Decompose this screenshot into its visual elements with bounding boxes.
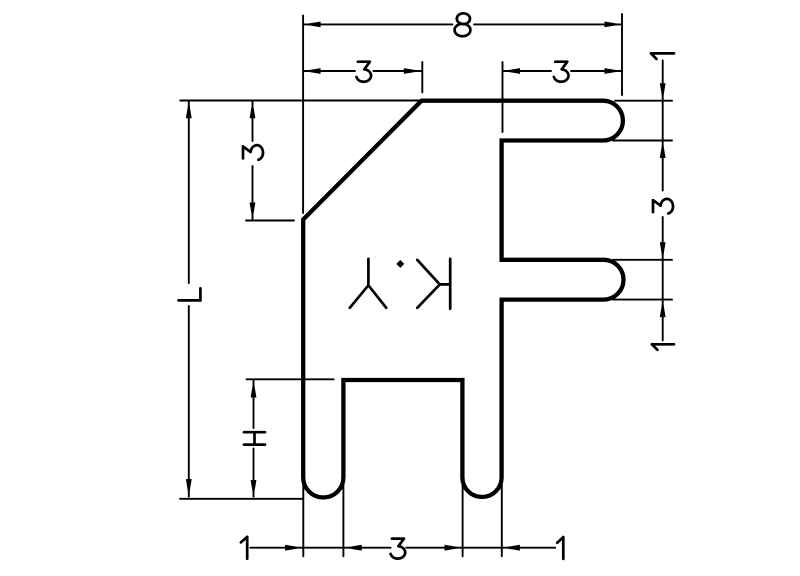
dim line 3 TR left segment [503,70,552,72]
arrow 1 right top [660,83,666,101]
part outline [303,101,623,498]
text 3 TL [357,62,372,82]
ext line bottom x=462.6 [462,481,464,556]
arrow 3 left top [250,101,256,119]
dim line 8 left segment [303,23,452,25]
arrow 3 right upper [660,141,666,159]
arrow H bottom [251,480,257,498]
text K.Y rotated 180 [350,259,450,309]
dim line L lower segment [188,306,190,497]
dim line 3 left upper segment [252,101,254,141]
ext line bottom x=501.8 [501,481,503,556]
ext line bottom of left dim 3 (y=220.5) [246,220,294,222]
arrow L top [186,101,192,119]
dim line H lower segment [253,449,255,497]
text 1 bottom left [241,537,247,559]
letter Y rotated [367,259,370,286]
ext line bottom x=344 [342,481,344,556]
text 1 bottom right [557,537,563,559]
arrow 3 TR right [605,68,623,74]
text 3 bottom [391,539,406,559]
arrow H top [251,380,257,398]
arrow 3 TL right [404,68,422,74]
ext line right dim at y=100.7 [615,100,672,102]
arrow L bottom [186,479,192,497]
dim line 3 right lower segment [662,217,664,340]
ext line right dim at y=299.6 [613,299,672,301]
dim line 3 bottom right segment [406,547,555,549]
text L (rotated) [179,288,201,300]
dim line L upper segment [188,101,190,283]
ext line right dim at y=259.8 [613,259,672,261]
arrow 1 right bottom [660,300,666,318]
text H (rotated) [244,432,265,444]
ext line right of dim 8 (x=622) [621,14,623,95]
dot of K.Y [396,260,404,268]
dim line 8 right segment [474,23,622,25]
arrow 8 left [303,22,321,28]
ext line right dim at y=140.5 [613,140,672,142]
dim line 3 left lower segment [252,166,254,220]
arrow 8 right [605,22,623,28]
text 3 right (rotated) [653,199,673,214]
text 1 right top (rotated) [651,53,674,59]
dim line 3 TL left segment [303,70,355,72]
arrow 1 bottom left [285,545,303,551]
text 3 left (rotated) [243,145,263,160]
ext line top (y=100.7) for L [180,100,419,102]
arrow 3 bottom right [445,545,463,551]
arrow 3 right lower [660,242,666,259]
letter K rotated [449,259,452,309]
arrow 3 bottom left [344,545,362,551]
arrow 3 TR left [503,68,521,74]
dim line 1 right top [662,61,664,191]
ext line left of dim 8 (x=303) [302,16,304,214]
ext line top of dim H (y=379.3) [247,378,334,380]
arrow 3 TL left [303,68,321,74]
arrow 1 bottom right [502,545,520,551]
text 1 right bottom (rotated) [652,344,674,350]
text 8 [455,13,471,36]
ext line left of top-right dim 3 (x=502.5) [502,62,504,132]
ext line bottom x=303.1 [302,481,304,556]
dim line H upper segment [253,380,255,428]
dim line 1 bottom left [250,547,390,549]
ext line bottom (y=498.2) for L [180,498,302,500]
dim line 3 TR right segment [571,70,622,72]
dim line 3 TL right segment [374,70,422,72]
ext line right of top-left dim 3 (x=422.5) [421,62,423,92]
arrow 3 left bottom [250,203,256,221]
text 3 TR [554,62,569,82]
